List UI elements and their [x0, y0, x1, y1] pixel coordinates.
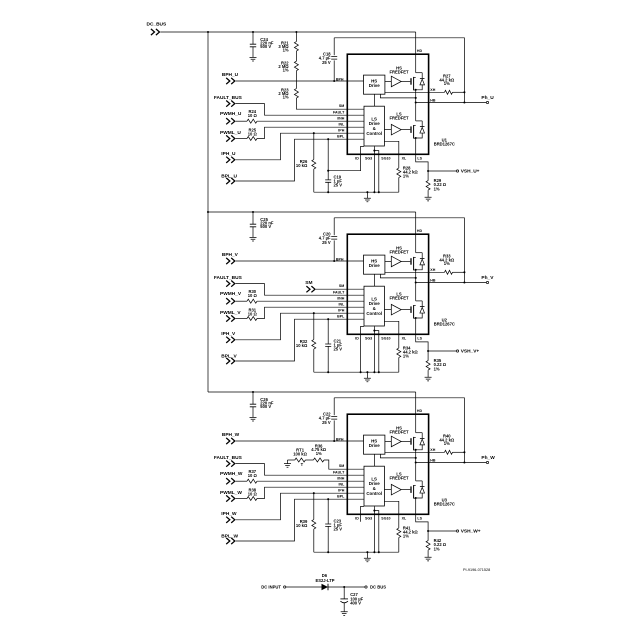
wire FAULT row — [236, 284, 364, 296]
svg-text:1%: 1% — [434, 366, 440, 371]
svg-text:HD: HD — [417, 49, 423, 53]
svg-text:Ph_V: Ph_V — [481, 275, 494, 281]
junction — [463, 101, 465, 103]
capacitor C21 1 uF 25 V — [327, 319, 329, 344]
svg-text:PWMH_U: PWMH_U — [220, 111, 242, 117]
svg-text:XL: XL — [402, 336, 407, 340]
wire SM row — [324, 460, 364, 469]
junction — [327, 191, 329, 193]
wire HD — [415, 212, 417, 253]
capacitor C19 1 uF 25 V — [327, 139, 329, 180]
svg-text:1%: 1% — [403, 534, 409, 539]
svg-text:Drive: Drive — [369, 263, 381, 268]
buffer HS — [385, 80, 391, 82]
svg-text:FAULT_BUS: FAULT_BUS — [214, 275, 243, 281]
svg-text:1%: 1% — [434, 546, 440, 551]
ground — [425, 197, 432, 201]
wire FAULT row — [236, 464, 364, 476]
resistor R28 44.2 kOhm — [397, 168, 401, 178]
svg-text:10 Ω: 10 Ω — [248, 492, 258, 497]
junction — [415, 317, 417, 319]
junction — [415, 269, 417, 271]
svg-text:FREDFET: FREDFET — [389, 250, 409, 255]
svg-text:BPL_U: BPL_U — [221, 173, 237, 179]
wire ID pin — [328, 146, 364, 170]
wire — [236, 138, 247, 140]
svg-text:1%: 1% — [316, 451, 322, 456]
svg-text:Drive: Drive — [369, 443, 381, 448]
junction — [327, 170, 329, 172]
wire XH — [385, 451, 445, 453]
ground — [366, 372, 368, 378]
svg-text:ID: ID — [355, 336, 359, 340]
node Ph_V — [486, 281, 488, 283]
svg-text:DC BUS: DC BUS — [370, 585, 386, 590]
svg-text:BPH_W: BPH_W — [222, 432, 240, 438]
wire LS pin — [416, 138, 428, 171]
wire DC_BUS — [160, 31, 415, 33]
wire IPH row — [236, 493, 364, 520]
wire IPH row — [236, 133, 364, 160]
wire — [380, 94, 415, 98]
resistor R35 0.22 Ohm — [427, 351, 429, 361]
resistor R21 3 MOhm — [295, 32, 297, 42]
svg-text:25 V: 25 V — [322, 420, 331, 425]
svg-text:BPL_V: BPL_V — [221, 353, 237, 359]
thermistor RT1 100 kOhm — [288, 459, 295, 461]
wire ground rail — [314, 371, 399, 373]
svg-text:BRD1267C: BRD1267C — [434, 322, 455, 327]
svg-text:ID: ID — [355, 156, 359, 160]
svg-text:BRD1267C: BRD1267C — [434, 502, 455, 507]
svg-text:FAULT: FAULT — [333, 470, 345, 474]
junction — [415, 449, 417, 451]
wire — [401, 489, 410, 491]
wire HS-LS link — [373, 94, 375, 106]
wire boost line — [334, 38, 464, 103]
svg-text:BPL: BPL — [337, 314, 345, 318]
resistor R31 10 Ohm — [247, 317, 257, 321]
wire HS-LS link — [373, 454, 375, 466]
svg-text:XH: XH — [430, 88, 435, 92]
node Ph_U — [486, 101, 488, 103]
junction — [427, 530, 429, 532]
resistor R38 10 Ohm — [247, 497, 257, 501]
svg-text:SG3: SG3 — [365, 516, 372, 520]
wire /INH row — [257, 120, 364, 122]
wire SG10 pin — [374, 511, 378, 553]
svg-text:LS: LS — [417, 516, 422, 520]
svg-text:IPH_W: IPH_W — [221, 511, 237, 517]
node DC BUS — [365, 586, 367, 588]
wire BPH row — [236, 80, 364, 82]
junction — [415, 137, 417, 139]
buffer HS — [385, 440, 391, 442]
op-amp U3 BRD1267C package outline — [347, 414, 428, 514]
svg-text:PI-9196-071528: PI-9196-071528 — [463, 568, 490, 572]
junction — [313, 312, 315, 314]
junction — [333, 440, 335, 442]
wire BPL row — [236, 499, 364, 541]
ground — [250, 417, 257, 421]
wire ID pin — [361, 326, 364, 372]
svg-text:500 V: 500 V — [260, 224, 271, 229]
svg-text:10 kΩ: 10 kΩ — [296, 523, 308, 528]
wire XL pin — [385, 501, 399, 528]
svg-text:PWMH_V: PWMH_V — [220, 291, 242, 297]
svg-text:XH: XH — [430, 448, 435, 452]
wire DC bus left rail — [207, 32, 209, 392]
wire — [401, 80, 410, 82]
wire SM row — [296, 98, 364, 109]
svg-text:HD: HD — [417, 409, 423, 413]
svg-text:VSH_W+: VSH_W+ — [461, 529, 481, 535]
wire — [401, 440, 410, 442]
svg-text:Drive: Drive — [369, 83, 381, 88]
svg-text:/INH: /INH — [337, 476, 345, 480]
junction — [415, 89, 417, 91]
node VSH_U+ — [428, 170, 456, 172]
resistor R42 0.22 Ohm — [427, 531, 429, 541]
wire /INH row — [257, 300, 364, 302]
svg-text:ID: ID — [355, 516, 359, 520]
junction — [327, 371, 329, 373]
wire — [236, 120, 247, 122]
wire — [380, 274, 415, 278]
op-amp U2 BRD1267C package outline — [347, 234, 428, 334]
wire ID pin — [361, 506, 364, 521]
ground — [366, 192, 368, 198]
wire HD — [415, 32, 417, 73]
wire — [401, 309, 410, 311]
svg-text:XL: XL — [402, 516, 407, 520]
svg-text:BPH: BPH — [336, 77, 344, 81]
junction — [427, 170, 429, 172]
diode D6 ES2J-LTP — [322, 584, 329, 590]
resistor R32 10 kOhm — [313, 313, 315, 339]
junction — [360, 371, 362, 373]
svg-text:HB: HB — [430, 278, 436, 282]
junction — [378, 371, 380, 373]
wire XL pin — [385, 321, 399, 348]
svg-text:BPH_U: BPH_U — [222, 72, 239, 78]
svg-text:25 V: 25 V — [322, 60, 331, 65]
svg-text:1%: 1% — [444, 81, 450, 86]
HS Drive block — [364, 255, 385, 274]
wire HB — [416, 282, 487, 284]
svg-text:SG10: SG10 — [381, 516, 390, 520]
svg-text:FAULT: FAULT — [333, 290, 345, 294]
svg-text:HB: HB — [430, 98, 436, 102]
wire ground rail — [314, 551, 399, 553]
svg-text:XL: XL — [402, 156, 407, 160]
svg-text:DC_BUS: DC_BUS — [147, 21, 168, 27]
svg-text:25 V: 25 V — [334, 182, 343, 187]
svg-text:SG10: SG10 — [381, 156, 390, 160]
ground — [425, 557, 432, 561]
svg-text:BPL_W: BPL_W — [221, 533, 238, 539]
capacitor C26 220 nF 500 V — [252, 392, 254, 404]
svg-text:10 Ω: 10 Ω — [248, 293, 258, 298]
svg-text:PWMH_W: PWMH_W — [220, 471, 243, 477]
svg-text:BRD1267C: BRD1267C — [434, 142, 455, 147]
svg-text:HB: HB — [430, 458, 436, 462]
wire XL pin — [385, 141, 399, 168]
resistor R30 10 Ohm — [247, 299, 257, 303]
wire HB — [416, 102, 487, 104]
wire — [286, 586, 322, 588]
svg-text:IPH_U: IPH_U — [221, 151, 236, 157]
svg-text:10 kΩ: 10 kΩ — [296, 163, 308, 168]
resistor R25 10 Ohm — [247, 137, 257, 141]
node VSH_W+ — [428, 530, 456, 532]
capacitor C20 4.7 uF 25 V — [333, 218, 335, 235]
wire — [236, 300, 247, 302]
wire — [236, 480, 247, 482]
resistor R24 10 Ohm — [247, 119, 257, 123]
svg-text:FREDFET: FREDFET — [389, 116, 409, 121]
svg-text:SG10: SG10 — [381, 336, 390, 340]
svg-text:1%: 1% — [444, 441, 450, 446]
wire HB — [416, 462, 487, 464]
svg-text:XH: XH — [430, 268, 435, 272]
node VSH_V+ — [428, 350, 456, 352]
svg-text:Control: Control — [366, 491, 382, 496]
LS Drive & Control block — [364, 466, 384, 506]
junction — [313, 132, 315, 134]
svg-text:PWML_V: PWML_V — [220, 310, 241, 316]
svg-text:25 V: 25 V — [334, 526, 343, 531]
resistor R27 44.2 kOhm — [445, 90, 453, 94]
svg-text:INL: INL — [339, 302, 346, 306]
wire boost line — [334, 398, 464, 463]
wire INL row — [257, 487, 364, 498]
wire — [236, 498, 247, 500]
svg-text:LS: LS — [417, 156, 422, 160]
HS Drive block — [364, 435, 385, 454]
svg-text:/INH: /INH — [337, 296, 345, 300]
junction — [463, 451, 465, 453]
ground — [250, 237, 257, 241]
LS Drive & Control block — [364, 286, 384, 326]
node Ph_W — [486, 461, 488, 463]
svg-text:FAULT_BUS: FAULT_BUS — [214, 455, 243, 461]
svg-text:400 V: 400 V — [350, 600, 361, 605]
svg-text:1%: 1% — [403, 354, 409, 359]
svg-text:FREDFET: FREDFET — [389, 476, 409, 481]
wire SG10 pin — [374, 151, 378, 193]
resistor R29 0.22 Ohm — [427, 171, 429, 181]
resistor R22 2 MOhm — [295, 51, 297, 61]
junction — [415, 277, 417, 279]
svg-text:Control: Control — [366, 311, 382, 316]
resistor R37 10 Ohm — [247, 479, 257, 483]
junction — [373, 191, 375, 193]
wire XH — [385, 91, 445, 93]
svg-text:FREDFET: FREDFET — [389, 296, 409, 301]
wire DC bus feed — [208, 211, 416, 213]
svg-text:SM: SM — [305, 280, 312, 286]
junction — [333, 80, 335, 82]
svg-text:10 kΩ: 10 kΩ — [296, 343, 308, 348]
junction — [295, 31, 297, 33]
wire INL row — [257, 307, 364, 318]
wire ground rail — [314, 191, 399, 193]
junction — [378, 551, 380, 553]
wire — [415, 270, 417, 301]
junction — [373, 330, 375, 332]
svg-text:1%: 1% — [283, 48, 289, 53]
svg-text:VSH_V+: VSH_V+ — [461, 349, 480, 355]
svg-text:FAULT_BUS: FAULT_BUS — [214, 95, 243, 101]
wire BPL row — [236, 319, 364, 361]
junction — [313, 492, 315, 494]
wire XH — [385, 271, 445, 273]
capacitor C23 1 uF 25 V — [327, 499, 329, 524]
svg-text:100 kΩ: 100 kΩ — [293, 451, 307, 456]
capacitor C18 4.7 uF 25 V — [333, 38, 335, 55]
junction — [373, 551, 375, 553]
svg-text:ES2J-LTP: ES2J-LTP — [315, 578, 334, 583]
wire — [401, 260, 410, 262]
svg-text:25 V: 25 V — [322, 240, 331, 245]
ground — [250, 57, 257, 61]
junction — [327, 551, 329, 553]
op-amp U1 BRD1267C package outline — [347, 54, 428, 154]
junction — [378, 191, 380, 193]
svg-text:IPH_V: IPH_V — [221, 331, 236, 337]
wire HD — [415, 392, 417, 433]
junction — [415, 457, 417, 459]
svg-text:1%: 1% — [434, 186, 440, 191]
svg-text:BPH_V: BPH_V — [222, 252, 239, 258]
resistor R39 10 kOhm — [313, 493, 315, 519]
svg-text:IPH: IPH — [338, 308, 344, 312]
wire — [328, 586, 365, 588]
ground — [366, 552, 368, 558]
wire BPL row — [236, 139, 364, 181]
resistor R36 4.75 kOhm — [305, 459, 313, 461]
svg-text:SM: SM — [339, 464, 344, 468]
wire SG3 pin — [373, 326, 375, 372]
buffer HS — [385, 260, 391, 262]
svg-text:FREDFET: FREDFET — [389, 430, 409, 435]
junction — [327, 138, 329, 140]
svg-text:Control: Control — [366, 131, 382, 136]
wire LS pin — [416, 318, 428, 351]
svg-text:10 Ω: 10 Ω — [248, 132, 258, 137]
svg-text:SG3: SG3 — [365, 156, 372, 160]
svg-text:1%: 1% — [283, 95, 289, 100]
junction — [327, 498, 329, 500]
buffer LS — [385, 489, 392, 491]
wire IPH row — [236, 313, 364, 340]
wire SM row — [316, 288, 364, 290]
svg-text:FREDFET: FREDFET — [389, 70, 409, 75]
wire — [380, 454, 415, 458]
svg-text:BPH: BPH — [336, 437, 344, 441]
wire INL row — [257, 127, 364, 138]
junction — [463, 271, 465, 273]
svg-text:BPL: BPL — [337, 494, 345, 498]
svg-text:LS: LS — [417, 336, 422, 340]
svg-text:1%: 1% — [403, 174, 409, 179]
svg-text:1%: 1% — [283, 68, 289, 73]
svg-text:10 Ω: 10 Ω — [248, 113, 258, 118]
junction — [463, 281, 465, 283]
svg-text:HD: HD — [417, 229, 423, 233]
wire FAULT row — [236, 104, 364, 116]
svg-text:Ph_W: Ph_W — [481, 455, 495, 461]
resistor R33 44.2 kOhm — [445, 270, 453, 274]
wire — [236, 318, 247, 320]
svg-text:SM: SM — [339, 284, 344, 288]
svg-text:1%: 1% — [444, 261, 450, 266]
HS Drive block — [364, 75, 385, 94]
buffer LS — [385, 309, 392, 311]
wire — [415, 90, 417, 121]
svg-text:INL: INL — [339, 122, 346, 126]
svg-text:Ph_U: Ph_U — [481, 95, 494, 101]
svg-text:SG3: SG3 — [365, 336, 372, 340]
junction — [463, 461, 465, 463]
svg-text:INL: INL — [339, 482, 346, 486]
wire — [415, 450, 417, 481]
wire DC bus feed — [208, 391, 416, 393]
capacitor C27 100 uF 400 V — [343, 587, 345, 599]
wire HS-LS link — [373, 274, 375, 286]
wire /INH row — [257, 480, 364, 482]
ground — [425, 377, 432, 381]
junction — [207, 31, 209, 33]
wire LS pin — [416, 498, 428, 531]
ground — [341, 612, 348, 616]
svg-text:10 Ω: 10 Ω — [248, 312, 258, 317]
svg-text:BPL: BPL — [337, 134, 345, 138]
svg-text:500 V: 500 V — [260, 44, 271, 49]
junction — [415, 281, 417, 283]
svg-text:/INH: /INH — [337, 116, 345, 120]
resistor R23 2 MOhm — [295, 71, 297, 89]
svg-text:PWML_U: PWML_U — [220, 130, 241, 136]
svg-text:SM: SM — [339, 104, 344, 108]
resistor R26 10 kOhm — [313, 133, 315, 159]
junction — [427, 350, 429, 352]
wire — [401, 129, 410, 131]
LS Drive & Control block — [364, 106, 384, 146]
capacitor C25 220 nF 500 V — [252, 212, 254, 224]
junction — [415, 461, 417, 463]
resistor R34 44.2 kOhm — [397, 348, 401, 358]
wire BPH row — [236, 260, 364, 262]
junction — [343, 586, 345, 588]
junction — [327, 318, 329, 320]
svg-text:VSH_U+: VSH_U+ — [461, 169, 480, 175]
svg-text:500 V: 500 V — [260, 404, 271, 409]
junction — [415, 97, 417, 99]
svg-text:FAULT: FAULT — [333, 110, 345, 114]
resistor R40 44.2 kOhm — [445, 450, 453, 454]
svg-text:25 V: 25 V — [334, 346, 343, 351]
capacitor C22 4.7 uF 25 V — [333, 398, 335, 415]
wire BPH row — [236, 440, 364, 442]
svg-text:PWML_W: PWML_W — [220, 490, 242, 496]
wire SG3 pin — [373, 506, 375, 552]
junction — [415, 101, 417, 103]
junction — [207, 211, 209, 213]
junction — [463, 91, 465, 93]
svg-text:IPH: IPH — [338, 488, 344, 492]
